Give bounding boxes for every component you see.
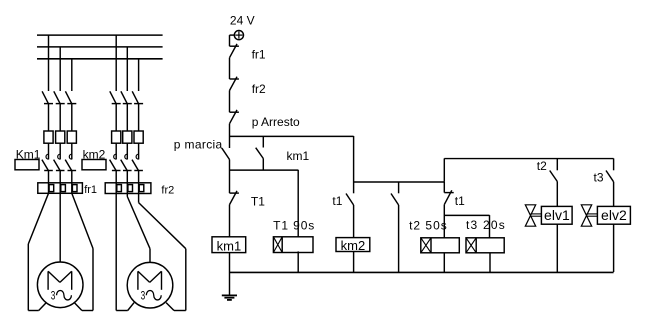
svg-text:elv2: elv2	[601, 207, 627, 223]
svg-text:t2 50s: t2 50s	[409, 218, 448, 232]
svg-text:24 V: 24 V	[230, 13, 255, 27]
svg-text:T1 90s: T1 90s	[273, 218, 315, 232]
svg-text:p Arresto: p Arresto	[252, 115, 300, 129]
svg-text:3: 3	[51, 288, 56, 302]
svg-text:t3 20s: t3 20s	[466, 218, 506, 232]
svg-text:3: 3	[141, 288, 146, 302]
svg-text:t1: t1	[332, 194, 342, 208]
svg-text:T1: T1	[251, 195, 265, 209]
svg-text:km2: km2	[341, 238, 366, 253]
svg-text:fr1: fr1	[252, 47, 266, 61]
svg-text:elv1: elv1	[544, 207, 570, 223]
svg-text:t3: t3	[593, 171, 603, 185]
svg-text:p marcia: p marcia	[174, 137, 223, 151]
svg-text:km1: km1	[217, 239, 242, 254]
svg-text:t1: t1	[455, 194, 465, 208]
svg-text:t2: t2	[537, 159, 547, 173]
svg-text:fr2: fr2	[252, 82, 266, 96]
svg-text:km1: km1	[287, 149, 310, 163]
svg-text:fr1: fr1	[84, 184, 97, 196]
svg-text:fr2: fr2	[161, 184, 174, 196]
